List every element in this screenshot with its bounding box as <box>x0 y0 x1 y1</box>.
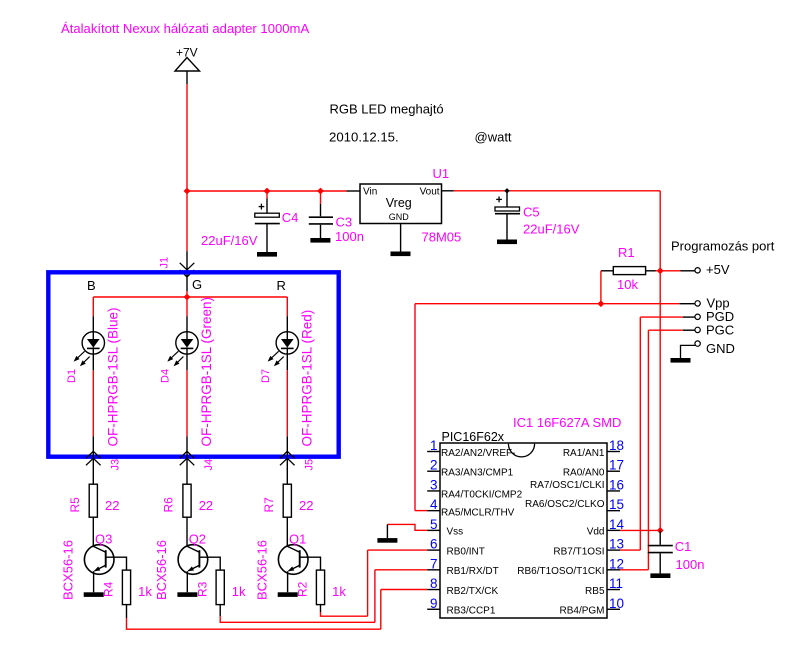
svg-text:B: B <box>87 278 96 293</box>
svg-text:J1: J1 <box>159 257 171 269</box>
svg-text:17: 17 <box>609 458 624 473</box>
svg-text:1k: 1k <box>332 584 346 599</box>
svg-text:3: 3 <box>430 477 438 492</box>
svg-text:R5: R5 <box>68 497 82 513</box>
svg-text:RB3/CCP1: RB3/CCP1 <box>447 606 496 617</box>
svg-text:2: 2 <box>430 458 438 473</box>
svg-text:RB5: RB5 <box>585 586 605 597</box>
svg-text:22: 22 <box>199 498 213 513</box>
svg-text:GND: GND <box>389 212 410 222</box>
svg-text:1k: 1k <box>232 584 246 599</box>
svg-text:7: 7 <box>430 556 438 571</box>
svg-text:Programozás port: Programozás port <box>671 239 775 254</box>
svg-text:BCX56-16: BCX56-16 <box>154 540 169 600</box>
svg-text:RA0/AN0: RA0/AN0 <box>563 468 605 479</box>
svg-text:1: 1 <box>430 438 438 453</box>
svg-text:D1: D1 <box>66 369 78 383</box>
svg-text:10: 10 <box>609 596 624 611</box>
svg-text:100n: 100n <box>335 229 364 244</box>
svg-text:22uF/16V: 22uF/16V <box>201 233 258 248</box>
svg-text:R2: R2 <box>296 581 310 597</box>
svg-text:R4: R4 <box>102 581 116 597</box>
svg-text:R3: R3 <box>195 581 209 597</box>
svg-text:OF-HPRGB-1SL (Red): OF-HPRGB-1SL (Red) <box>299 310 314 447</box>
svg-text:22: 22 <box>299 498 313 513</box>
svg-text:D4: D4 <box>160 369 172 383</box>
svg-text:16: 16 <box>609 477 624 492</box>
svg-text:15: 15 <box>609 497 624 512</box>
svg-text:C3: C3 <box>336 215 353 230</box>
svg-text:RA6/OSC2/CLKO: RA6/OSC2/CLKO <box>525 499 605 510</box>
svg-text:11: 11 <box>609 576 623 591</box>
svg-text:C1: C1 <box>675 539 692 554</box>
svg-text:10k: 10k <box>617 277 638 292</box>
svg-text:RA5/MCLR/THV: RA5/MCLR/THV <box>441 508 515 519</box>
svg-text:RA7/OSC1/CLKI: RA7/OSC1/CLKI <box>530 480 604 491</box>
svg-text:18: 18 <box>609 438 624 453</box>
svg-text:Vreg: Vreg <box>386 196 412 210</box>
svg-text:RA1/AN1: RA1/AN1 <box>563 448 605 459</box>
svg-text:22: 22 <box>105 498 119 513</box>
svg-text:OF-HPRGB-1SL (Blue): OF-HPRGB-1SL (Blue) <box>105 307 120 446</box>
svg-text:J3: J3 <box>109 459 121 471</box>
svg-text:R6: R6 <box>162 497 176 513</box>
svg-text:Vout: Vout <box>420 187 440 198</box>
svg-text:12: 12 <box>609 556 624 571</box>
svg-text:+5V: +5V <box>706 262 730 277</box>
svg-text:Q3: Q3 <box>95 531 112 546</box>
svg-text:Q1: Q1 <box>289 531 306 546</box>
svg-text:22uF/16V: 22uF/16V <box>523 222 580 237</box>
svg-text:9: 9 <box>430 596 438 611</box>
svg-text:RB4/PGM: RB4/PGM <box>559 606 604 617</box>
svg-text:Vdd: Vdd <box>587 527 605 538</box>
svg-text:RB2/TX/CK: RB2/TX/CK <box>447 586 499 597</box>
svg-text:BCX56-16: BCX56-16 <box>60 540 75 600</box>
svg-text:5: 5 <box>430 517 438 532</box>
svg-text:RB7/T1OSI: RB7/T1OSI <box>553 546 604 557</box>
svg-text:Vin: Vin <box>363 187 377 198</box>
svg-text:OF-HPRGB-1SL (Green): OF-HPRGB-1SL (Green) <box>199 297 214 447</box>
svg-text:BCX56-16: BCX56-16 <box>254 540 269 600</box>
svg-text:Vss: Vss <box>447 527 464 538</box>
svg-text:2010.12.15.: 2010.12.15. <box>329 130 399 145</box>
svg-text:RB6/T1OSO/T1CKI: RB6/T1OSO/T1CKI <box>517 566 604 577</box>
svg-text:R1: R1 <box>618 245 635 260</box>
svg-text:RB1/RX/DT: RB1/RX/DT <box>447 566 499 577</box>
svg-text:R7: R7 <box>262 497 276 513</box>
svg-text:@watt: @watt <box>475 130 512 145</box>
svg-text:GND: GND <box>706 341 735 356</box>
svg-text:J5: J5 <box>303 459 315 471</box>
svg-text:PGC: PGC <box>706 322 734 337</box>
svg-text:13: 13 <box>609 537 624 552</box>
svg-text:100n: 100n <box>676 557 705 572</box>
svg-text:78M05: 78M05 <box>422 230 462 245</box>
svg-text:D7: D7 <box>260 369 272 383</box>
svg-text:PIC16F62x: PIC16F62x <box>442 430 505 444</box>
svg-text:U1: U1 <box>433 166 450 181</box>
svg-text:R: R <box>277 278 286 293</box>
svg-text:IC1 16F627A SMD: IC1 16F627A SMD <box>513 415 621 430</box>
svg-text:C5: C5 <box>523 205 540 220</box>
svg-text:8: 8 <box>430 576 438 591</box>
svg-text:RA3/AN3/CMP1: RA3/AN3/CMP1 <box>441 468 514 479</box>
svg-text:C4: C4 <box>282 210 299 225</box>
svg-text:J4: J4 <box>203 459 215 471</box>
svg-text:RGB LED meghajtó: RGB LED meghajtó <box>330 102 444 117</box>
svg-text:6: 6 <box>430 537 438 552</box>
svg-text:RA2/AN2/VREF-: RA2/AN2/VREF- <box>441 448 515 459</box>
svg-text:4: 4 <box>430 497 438 512</box>
svg-text:RB0/INT: RB0/INT <box>447 546 485 557</box>
svg-text:Átalakított Nexux hálózati ada: Átalakított Nexux hálózati adapter 1000m… <box>61 21 309 36</box>
svg-text:1k: 1k <box>138 584 152 599</box>
svg-text:14: 14 <box>609 517 625 532</box>
svg-text:RA4/T0CKI/CMP2: RA4/T0CKI/CMP2 <box>441 489 523 500</box>
svg-text:G: G <box>192 277 202 292</box>
svg-text:Q2: Q2 <box>189 531 206 546</box>
